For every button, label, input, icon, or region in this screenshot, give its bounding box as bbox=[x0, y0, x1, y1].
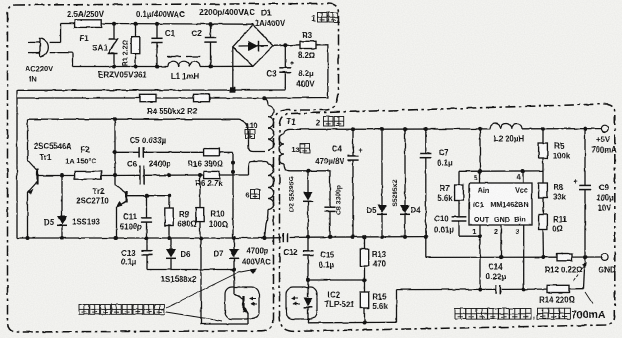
resistor R7 5.6k bbox=[455, 171, 464, 216]
wire AC bottom rail bbox=[73, 64, 254, 68]
diode D5 1SS193 bbox=[57, 174, 67, 239]
capacitor C5 0.033u bbox=[138, 147, 140, 157]
diode D2 S5295G bbox=[303, 171, 313, 237]
wire row C (base/F2) bbox=[38, 162, 265, 178]
wire opto emitter return loop bbox=[201, 238, 248, 324]
label 13 turns bbox=[291, 144, 309, 155]
op-amp IC1 MM1462BN box bbox=[469, 183, 532, 225]
resistor R6 2.7k bbox=[204, 171, 220, 178]
label 2 (secondary side) bbox=[316, 117, 344, 128]
primary-side enclosure border (1次側 dash-dot box) bbox=[8, 4, 339, 333]
optocoupler IC2 LED side bbox=[286, 280, 317, 323]
capacitor C9 100u/10V electrolytic bbox=[573, 129, 591, 260]
wire pin1 column bbox=[478, 225, 482, 292]
resistor R12 0.22ohm bbox=[557, 254, 572, 261]
diode D7 1S1588 bbox=[229, 238, 239, 270]
label 110 turns bbox=[245, 121, 257, 139]
label 1 (primary side) bbox=[311, 13, 338, 24]
diode D4 S5295 bbox=[400, 129, 410, 237]
terminal GND bbox=[601, 254, 608, 261]
optocoupler IC2 phototransistor side bbox=[225, 270, 259, 325]
resistor R10 100ohm bbox=[196, 175, 204, 238]
wire secondary winding bottom row bbox=[290, 169, 330, 173]
capacitor C8 3300p bbox=[324, 171, 335, 237]
note text: components requiring good insulation bbox=[79, 305, 89, 315]
wire bottom return bbox=[308, 288, 496, 325]
capacitor C6 2400p bbox=[139, 166, 141, 185]
inductor L2 20uH bbox=[490, 124, 522, 129]
dashed arrow callout to R12 bbox=[574, 262, 593, 304]
resistor R4 550k bbox=[140, 94, 156, 101]
resistor R13 470 bbox=[360, 237, 368, 280]
fuse F1 2.5A/250V bbox=[75, 20, 102, 28]
label +5V 700mA bbox=[591, 135, 617, 155]
diode D5 S5295 (secondary) bbox=[377, 129, 387, 237]
resistor R14 220ohm bbox=[547, 285, 569, 292]
wire AC top rail bbox=[61, 22, 253, 26]
resistor R16 390ohm bbox=[204, 149, 220, 156]
wire R3 to lower rail (clamp loop) bbox=[265, 45, 328, 98]
callout lines from note bbox=[166, 269, 257, 322]
wire C15-R13 row bbox=[306, 278, 367, 282]
capacitor C11 5100p bbox=[141, 196, 152, 239]
wire row B (C5/R16) bbox=[115, 152, 235, 238]
resistor R5 100k bbox=[539, 129, 548, 171]
resistor R9 680ohm bbox=[165, 196, 173, 239]
capacitor C3 8.2u/400V electrolytic bbox=[279, 45, 293, 90]
label AC220V IN bbox=[25, 64, 53, 84]
wire D6-D7 bottom row bbox=[147, 268, 236, 272]
capacitor C10 0.01u bbox=[452, 217, 482, 238]
transistor Tr1 2SC5548A bbox=[28, 119, 38, 238]
wire pin2 column bbox=[499, 225, 503, 259]
bridge rectifier D1 1A/400V bbox=[233, 25, 273, 67]
wire pin3 column bbox=[522, 225, 526, 291]
wire secondary +V rail bbox=[290, 127, 601, 132]
capacitor C4 470u/8V electrolytic bbox=[347, 129, 362, 237]
terminal +5V bbox=[601, 125, 608, 132]
wire bridge DC+ output bbox=[273, 43, 300, 47]
wire plug to rails bbox=[50, 24, 73, 67]
capacitor C12 4700p/400VAC Y-cap bbox=[265, 233, 309, 242]
resistor R1 2.2ohm bbox=[135, 24, 137, 37]
label 6 turns bbox=[245, 190, 259, 200]
resistor R11 0ohm bbox=[539, 215, 548, 260]
transformer T1 primary winding 110 turns bbox=[265, 98, 274, 150]
diode D6 1S1588 bbox=[166, 238, 176, 270]
varistor SA1 ERZV05V361 bbox=[109, 24, 118, 67]
wire base node vertical bbox=[113, 119, 117, 185]
capacitor C13 0.1u bbox=[141, 238, 152, 270]
fuse F2 1A 150C bbox=[75, 171, 102, 179]
transistor Tr2 2SC2710 bbox=[115, 185, 127, 238]
inductor L1 1mH bbox=[167, 57, 200, 67]
secondary-side enclosure border (2次側 dash-dot box) bbox=[280, 104, 615, 331]
resistor R2 550k bbox=[194, 94, 210, 101]
capacitor C15 0.1u bbox=[302, 237, 313, 280]
wire startup row y=98 bbox=[17, 96, 267, 100]
resistor R3 8.2ohm bbox=[300, 41, 316, 48]
note text: overcurrent sampling resistor set value 700mA bbox=[455, 308, 606, 321]
capacitor C1 0.1u/400WAC bbox=[151, 24, 162, 67]
transformer T1 feedback winding 6 turns bbox=[265, 162, 274, 239]
wire GND rail bbox=[426, 256, 602, 258]
resistor R8 33k bbox=[539, 171, 548, 215]
wire primary ground rail bbox=[17, 236, 267, 240]
wire Ain row (pin5/pin4/R7) bbox=[459, 169, 543, 173]
capacitor C7 0.1u bbox=[420, 129, 431, 237]
wire secondary cold rail bbox=[306, 235, 428, 258]
wire R14 to GND rail bbox=[569, 257, 585, 289]
label 8.2u 400V bbox=[296, 69, 315, 89]
capacitor C2 2200p/400VAC bbox=[204, 24, 216, 66]
transformer T1 secondary winding 13 turns bbox=[279, 129, 290, 170]
AC plug P1 bbox=[28, 38, 48, 57]
wire pin5 column bbox=[479, 129, 481, 183]
wire pin4 column bbox=[522, 171, 524, 183]
capacitor C14 0.22u bbox=[495, 285, 497, 294]
wire Tr2 base row bbox=[127, 194, 172, 198]
resistor R15 5.6k bbox=[360, 280, 368, 323]
wire bridge DC- to left loop bbox=[17, 47, 285, 238]
wire C14 to R14 bbox=[500, 288, 547, 290]
wire Tr1 collector row to 110T winding bottom bbox=[28, 117, 266, 151]
